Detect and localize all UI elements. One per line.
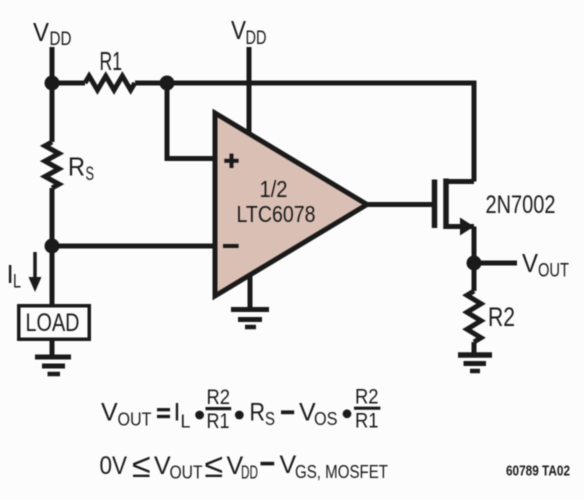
current arrow IL	[29, 252, 42, 292]
svg-text:S: S	[86, 164, 95, 185]
wire op-amp to ground	[248, 275, 253, 307]
svg-text:R2: R2	[355, 386, 379, 409]
supply VDD (center) label	[231, 15, 267, 49]
resistor RS	[45, 142, 59, 188]
svg-text:V: V	[154, 452, 171, 480]
svg-text:OUT: OUT	[118, 410, 152, 430]
svg-text:OS: OS	[314, 409, 338, 429]
svg-text:60789 TA02: 60789 TA02	[506, 463, 570, 480]
wire node C to op-amp inverting input	[52, 244, 214, 249]
svg-text:DD: DD	[241, 463, 258, 483]
label RS	[68, 152, 94, 186]
supply VDD (left) label	[33, 17, 72, 50]
svg-text:LOAD: LOAD	[26, 309, 80, 337]
transistor Q1 2N7002	[435, 179, 475, 236]
wire node A to R1	[52, 81, 85, 86]
svg-text:OUT: OUT	[538, 261, 569, 282]
svg-text:V: V	[522, 248, 539, 278]
svg-text:R: R	[68, 152, 85, 182]
wire op-amp output to Q1 gate	[367, 202, 432, 207]
svg-text:V: V	[280, 451, 297, 479]
wire node C to LOAD	[50, 246, 55, 304]
wire R1 to node B	[135, 81, 167, 86]
wire VDD left down to node A	[50, 47, 55, 83]
resistor R2	[467, 291, 481, 342]
wire node VOUT to R2	[472, 263, 477, 291]
svg-text:≤: ≤	[132, 447, 151, 485]
node C junction dot	[45, 239, 60, 254]
svg-text:R1: R1	[100, 46, 123, 76]
op-amp U1 (1/2 LTC6078)	[215, 113, 367, 296]
node A junction dot	[45, 76, 60, 91]
svg-text:S: S	[265, 409, 275, 429]
svg-text:≤: ≤	[205, 447, 224, 485]
wire VDD center to op-amp supply pin	[247, 47, 252, 133]
resistor R1	[85, 76, 135, 90]
op-amp noninverting input + symbol	[224, 154, 238, 168]
wire node A to RS	[50, 83, 55, 142]
svg-text:GS, MOSFET: GS, MOSFET	[295, 462, 388, 482]
svg-text:OUT: OUT	[170, 463, 203, 483]
node VOUT junction dot	[467, 256, 482, 271]
svg-text:DD: DD	[50, 29, 72, 50]
svg-text:LTC6078: LTC6078	[237, 201, 316, 227]
svg-text:R2: R2	[488, 302, 515, 332]
ground (below R2)	[458, 355, 492, 371]
op-amp inverting input - symbol	[223, 244, 239, 248]
svg-text:R1: R1	[355, 410, 379, 433]
svg-text:R2: R2	[207, 386, 231, 409]
svg-text:L: L	[181, 412, 191, 432]
label VOUT	[522, 248, 569, 282]
ground (below LOAD)	[35, 357, 71, 374]
svg-text:I: I	[174, 399, 181, 427]
svg-text:2N7002: 2N7002	[486, 191, 556, 219]
LOAD box	[19, 306, 90, 340]
svg-text:R1: R1	[207, 410, 230, 433]
node B junction dot	[160, 76, 175, 91]
wire RS to node C	[50, 188, 55, 246]
svg-text:V: V	[101, 399, 118, 427]
svg-text:R: R	[250, 399, 266, 427]
svg-text:0V: 0V	[100, 452, 128, 480]
svg-text:DD: DD	[246, 28, 267, 49]
equation line 1: VOUT = IL * R2/R1 * RS - VOS * R2/R1	[101, 386, 380, 433]
ground (below op-amp)	[231, 310, 269, 328]
wire node VOUT to label	[474, 261, 517, 266]
wire R2 to ground	[472, 342, 477, 355]
equation line 2: 0V <= VOUT <= VDD - VGS,MOSFET	[100, 447, 389, 485]
svg-text:L: L	[13, 272, 21, 293]
wire Q1 source to node VOUT	[472, 227, 477, 264]
wire LOAD to ground	[50, 341, 55, 355]
svg-text:V: V	[33, 17, 50, 47]
label IL	[7, 259, 22, 293]
wire node B to Q1 drain (top rail)	[167, 83, 474, 182]
svg-text:V: V	[231, 15, 247, 45]
wire node B to op-amp noninverting input	[167, 83, 214, 159]
svg-text:1/2: 1/2	[260, 176, 288, 202]
